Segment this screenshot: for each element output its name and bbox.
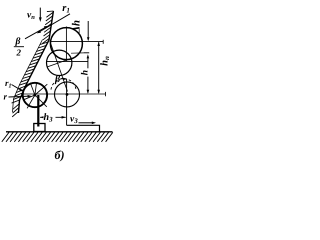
chain line through roll centers — [50, 42, 68, 92]
top roll vertical center line — [65, 27, 67, 62]
tangent line through middle roll — [47, 59, 71, 68]
leader r1 left — [12, 85, 24, 92]
thick support line — [37, 95, 39, 127]
arrow beta — [61, 78, 67, 81]
left roll radial lines — [24, 83, 48, 109]
wall hatching — [12, 12, 54, 117]
dimension delta-h line — [87, 21, 90, 41]
top roll circle — [50, 28, 82, 60]
svg-text:v3: v3 — [70, 115, 78, 126]
dimension h top terminal bar — [84, 52, 90, 54]
leader r1 top — [37, 14, 70, 34]
exit strip — [67, 125, 100, 131]
left roll circle — [23, 83, 47, 107]
svg-text:б): б) — [55, 148, 65, 162]
leader r left — [9, 95, 32, 98]
wall top cap — [47, 10, 54, 13]
svg-text:2: 2 — [16, 48, 22, 58]
dimension h datum extension — [71, 52, 84, 54]
bottom roll vertical center line — [66, 79, 68, 125]
svg-text:r: r — [4, 92, 8, 102]
dimension h line — [87, 54, 90, 94]
dashed displaced roll arc — [51, 79, 76, 90]
label beta/2 fraction — [14, 37, 24, 58]
base plate hatching — [2, 132, 113, 142]
wall edge (bent die surface) — [19, 11, 54, 113]
top datum end tick — [102, 40, 104, 44]
dimension h3 — [40, 116, 66, 119]
bottom roll circle — [55, 82, 80, 107]
support block — [34, 124, 45, 132]
wall inner boundary — [13, 40, 43, 113]
arrow v_n — [39, 8, 42, 22]
svg-text:Δh: Δh — [71, 20, 83, 34]
svg-text:β: β — [15, 37, 21, 47]
dimension h_n line — [97, 42, 100, 94]
arrow v3 — [79, 122, 97, 125]
svg-text:β: β — [54, 74, 61, 85]
base plate top edge — [6, 131, 113, 133]
top datum horizontal line — [50, 41, 104, 43]
label h3 — [44, 110, 56, 124]
middle roll circle — [47, 50, 72, 75]
bottom datum end tick — [105, 92, 107, 96]
middle roll horizontal center line — [46, 61, 88, 63]
bottom roll center dot — [66, 93, 69, 96]
left roll center dot — [33, 94, 36, 97]
leader beta/2 — [25, 26, 48, 39]
bottom datum horizontal line — [23, 93, 106, 95]
svg-text:h: h — [81, 70, 91, 75]
